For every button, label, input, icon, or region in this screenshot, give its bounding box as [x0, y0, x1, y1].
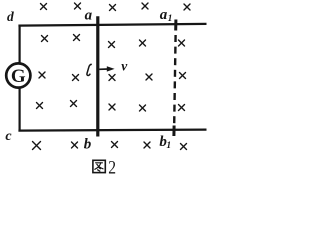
galvanometer G: [6, 63, 30, 87]
dashed position line a1–b1: bottom tick: [172, 126, 175, 137]
svg-text:v: v: [121, 59, 128, 74]
left wire d–G (segment): [19, 25, 21, 64]
dashed position line a1–b1: dashes: [174, 35, 175, 124]
svg-text:a: a: [85, 8, 93, 24]
caption glyph 图 (drawn): [93, 160, 105, 172]
svg-text:a: a: [160, 7, 168, 23]
svg-text:b: b: [84, 137, 92, 153]
conducting rod ab: [96, 16, 99, 136]
label l (script ell): [87, 64, 92, 75]
velocity arrow v: [99, 66, 114, 71]
bottom rail c–b1 (wire): [18, 130, 206, 131]
svg-text:1: 1: [168, 14, 173, 24]
svg-text:d: d: [7, 9, 14, 24]
svg-text:1: 1: [166, 141, 171, 151]
dashed position line a1–b1: top tick: [174, 20, 177, 31]
top rail d–a1 (wire): [18, 24, 206, 26]
magnetic field symbols (B into page), 5 rows: [33, 3, 191, 150]
svg-text:c: c: [5, 129, 12, 144]
left wire G–c (segment): [19, 88, 21, 131]
svg-text:2: 2: [108, 157, 116, 178]
svg-text:G: G: [11, 66, 26, 87]
